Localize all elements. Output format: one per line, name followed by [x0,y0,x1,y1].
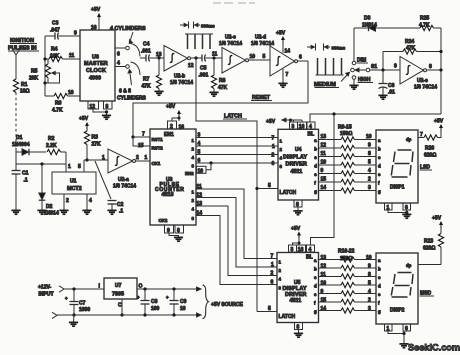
faint top scan artifacts [213,2,255,4]
svg-text:R9-15: R9-15 [338,125,352,131]
timing annotation 300ms [180,22,215,29]
svg-text:5: 5 [368,281,371,287]
svg-text:+5V: +5V [291,226,301,232]
resistor R21 row f [319,298,381,306]
wire U2-a out to CK1 [136,155,151,161]
svg-text:6: 6 [405,326,408,332]
wire U3 pin 12 to U5 pin 1 [192,193,278,269]
svg-text:5: 5 [78,164,81,170]
wire [191,57,202,59]
svg-text:2: 2 [66,198,69,204]
capacitor C3 [45,21,80,40]
svg-text:DRIVER: DRIVER [286,161,308,167]
svg-text:4.7K: 4.7K [52,108,63,114]
svg-text:R2: R2 [48,136,55,142]
svg-text:12: 12 [188,63,194,69]
svg-text:dp: dp [406,263,412,268]
resistor R15 row g [319,185,382,194]
svg-text:CK2: CK2 [159,218,168,223]
svg-text:C4: C4 [143,42,150,48]
svg-text:4: 4 [368,289,371,295]
svg-text:d: d [314,283,317,288]
svg-text:10: 10 [68,90,74,96]
label 6 &amp; 8 CYLINDERS with arrow [117,70,147,102]
resistor R16 row a [319,255,382,263]
svg-text:1/6 74C14: 1/6 74C14 [219,41,242,47]
svg-text:14: 14 [321,185,327,191]
svg-text:D2: D2 [46,204,53,210]
capacitor C7 [65,289,90,315]
svg-text:4: 4 [89,198,92,204]
svg-text:9: 9 [321,168,324,174]
svg-text:2: 2 [136,155,139,161]
resistor R23 [418,228,444,265]
ground [37,210,46,214]
wire U3 pin 11 to U5 pin 7 [192,184,278,260]
node junction [43,81,46,84]
svg-text:R5: R5 [31,69,38,75]
inverter U2-c [219,35,249,74]
svg-text:1/6 74C14: 1/6 74C14 [251,41,274,47]
resistor R14 row f [319,177,381,186]
timing annotation 300ms [307,44,346,51]
label LSD [420,165,433,171]
node junction [43,57,46,60]
wire RST1 [131,132,150,139]
svg-text:47K: 47K [142,84,152,90]
wire [15,148,17,164]
svg-text:BL: BL [306,255,313,261]
svg-text:3: 3 [198,133,201,139]
IC U4 DISPLAY DRIVER 4511 [278,129,319,200]
svg-text:g: g [314,189,317,194]
svg-text:S1: S1 [371,64,377,70]
svg-text:11: 11 [69,53,75,59]
ground [399,344,408,348]
capacitor C1 [12,164,29,210]
svg-text:3: 3 [368,185,371,191]
U2-d pin 7 to ground [283,69,289,83]
capacitor C4 [140,42,164,62]
+5V to U5 pins 3/16 [291,226,301,245]
IC U5 DISPLAY DRIVER 4511 [277,253,319,323]
capacitor C9 [166,287,187,316]
svg-text:+5V: +5V [166,104,176,110]
capacitor C5 [199,52,223,79]
resistor R12 row d [319,160,382,169]
svg-text:RST1: RST1 [152,137,164,142]
svg-text:+: + [65,296,68,301]
U6 pin 6 output [115,46,129,57]
svg-text:7805: 7805 [112,292,124,298]
wire U3 pin 6 to U4 pin 6 [192,158,279,168]
svg-text:4060: 4060 [89,76,101,82]
selector arc upper [131,44,141,57]
svg-text:10: 10 [366,134,372,140]
svg-text:.1: .1 [119,209,123,215]
U4 bottom pin 8 [294,200,302,211]
svg-text:9: 9 [394,64,397,70]
svg-text:15: 15 [321,177,327,183]
svg-text:12: 12 [90,104,96,110]
ground [378,95,387,99]
U1 pin 2 [64,194,69,210]
watermark seekic [408,343,460,353]
svg-text:15: 15 [138,143,144,149]
node junction [381,68,384,71]
svg-text:2: 2 [271,271,274,277]
wire output node vertical [440,28,442,114]
svg-text:CLOCK: CLOCK [86,68,106,74]
svg-text:12: 12 [321,264,327,270]
+5V for R26 [434,119,444,132]
svg-text:9: 9 [368,264,371,270]
svg-text:9: 9 [74,31,77,37]
wire +5V out rail [137,288,197,290]
svg-text:13: 13 [197,201,203,207]
svg-text:SeekIC.com: SeekIC.com [408,343,460,353]
svg-text:C1: C1 [22,171,29,177]
label LATCH [223,114,247,120]
switch S1 [351,28,400,79]
DISP1 digit 8 [391,150,413,177]
svg-text:CYLINDERS: CYLINDERS [117,96,147,102]
display DISP2 [376,253,418,324]
svg-text:U2-e: U2-e [417,78,428,84]
regulator U7 7805 [99,278,143,309]
svg-text:DISP2: DISP2 [390,308,405,314]
resistor R19 row d [319,281,382,289]
svg-text:1N914: 1N914 [44,211,59,217]
svg-text:1/6 74C14: 1/6 74C14 [414,85,437,91]
svg-text:6: 6 [117,52,120,58]
svg-text:7: 7 [286,72,289,78]
op-to-coupler U1 MCT2 [52,172,96,194]
svg-text:7: 7 [271,254,274,260]
svg-text:8: 8 [177,228,180,234]
ground [293,211,302,215]
label IGNITION PULSES IN [8,38,39,52]
diode D2 [39,164,59,217]
svg-text:d: d [314,163,317,168]
svg-text:C9: C9 [180,299,187,305]
svg-text:+12V-: +12V- [38,285,52,291]
svg-text:1: 1 [145,155,148,161]
capacitor C2 [108,201,124,215]
svg-text:U7: U7 [115,283,122,289]
ground [402,214,411,218]
waveform pulse train medium [316,58,344,75]
resistor R6 [45,90,80,114]
svg-text:U6: U6 [92,55,99,61]
svg-text:15: 15 [321,298,327,304]
resistor R17 row b [319,264,382,272]
resistor R22 row g [319,306,382,314]
svg-text:11: 11 [197,184,203,190]
svg-text:1/6 74C14: 1/6 74C14 [113,184,136,190]
svg-text:27K: 27K [92,142,102,148]
svg-text:+: + [137,295,140,300]
svg-text:D1: D1 [16,135,23,141]
svg-text:b: b [378,267,381,272]
wire LATCH net [196,58,257,312]
label R16-22 150ohm [338,249,355,263]
svg-text:d: d [378,284,381,289]
input connector chevrons [52,286,64,319]
svg-text:R6: R6 [55,101,62,107]
wire diagonal to C2 [95,161,111,199]
resistor R3 [84,131,101,160]
svg-text:5: 5 [268,183,271,189]
svg-text:10: 10 [321,281,327,287]
svg-text:300ms: 300ms [332,46,346,51]
wire [15,63,17,79]
svg-text:13: 13 [321,255,327,261]
svg-text:12: 12 [197,193,203,199]
wire (dashed) [15,93,17,149]
svg-text:10: 10 [321,160,327,166]
svg-text:+5V: +5V [434,119,444,125]
node junction [332,112,335,115]
svg-text:620Ω: 620Ω [423,246,435,252]
wire RST2 [133,137,150,149]
svg-text:R24: R24 [405,39,414,45]
display DISP1 [376,130,418,203]
U3 bottom pins 9 and 8 [165,225,184,237]
wire +12V rail [64,288,104,290]
ground [209,92,218,96]
ground [294,333,303,337]
resistor R20 row e [319,289,382,297]
svg-text:.001: .001 [141,49,151,55]
wire U3 pin 14 to U5 pin 6 [192,211,278,286]
svg-text:R4: R4 [51,47,58,53]
svg-text:8: 8 [368,151,371,157]
IC U6 MASTER CLOCK 4060 [80,30,115,101]
wire U2-e output [427,64,443,72]
node R3/U1-5/U2a input [85,158,88,161]
node junction [72,313,75,316]
resistor R11 row c [319,151,382,160]
svg-text:U5: U5 [294,280,301,286]
inverter U2-e [400,57,437,91]
DISP2 digit 8 [391,273,413,298]
svg-text:7: 7 [142,132,145,138]
svg-text:MCT2: MCT2 [67,186,82,192]
svg-text:1000: 1000 [79,307,90,313]
ground [82,210,91,214]
label +12V INPUT [38,285,54,298]
output arrows [197,287,202,317]
svg-text:4511: 4511 [291,169,303,175]
node junction [212,56,215,59]
wire U2-d output [298,55,309,62]
svg-text:5: 5 [263,54,266,60]
ground for HIGH contact [349,80,358,90]
+5V to U6 pin 16 [91,7,101,31]
ground [69,315,78,326]
svg-text:C2: C2 [117,202,124,208]
resistor R24 feedback [383,39,443,70]
svg-text:CK1: CK1 [152,161,161,166]
DISP2 bottom pins 1 and 6 [385,324,411,344]
svg-text:C5: C5 [200,66,207,72]
wire U3 pin 4 to U4 pin 1 [192,141,279,151]
svg-text:4518: 4518 [162,192,174,198]
wire [84,159,108,161]
svg-text:2: 2 [368,298,371,304]
svg-text:.01: .01 [388,90,395,96]
resistor R18 row c [319,272,382,280]
svg-text:U4: U4 [295,147,302,153]
ground [107,210,116,214]
IC U3 PULSE COUNTER 4518 [150,129,196,225]
label R9-15 150ohm [338,125,352,138]
ground [154,91,163,95]
svg-text:b: b [378,147,381,152]
svg-text:4: 4 [198,141,201,147]
svg-text:14: 14 [321,306,327,312]
ground [59,210,68,214]
wire latch to U5 pin 5 [257,306,277,312]
svg-text:C: C [118,303,122,309]
wire latch to U4 pin 5 [255,183,278,190]
+5V to U2-d pin 14 [276,31,290,55]
inverter U2-d [251,35,298,77]
svg-text:9: 9 [368,143,371,149]
svg-text:5: 5 [368,160,371,166]
svg-text:7: 7 [420,132,423,138]
wire U3 pin 3 to U4 pin 7 [192,133,279,143]
node junction (latch tap) [194,56,197,59]
svg-text:4: 4 [117,61,120,67]
svg-text:10: 10 [366,255,372,261]
svg-text:+: + [166,295,169,300]
label MEDIUM with arrow [314,72,350,88]
resistor R4 [45,47,80,62]
svg-text:14: 14 [285,49,291,55]
label 4 CYLINDERS with arrow [110,26,146,44]
svg-text:EN1: EN1 [164,132,174,138]
resistor R2 [46,136,66,155]
U5 bottom pin 8 [295,323,303,334]
svg-text:13: 13 [321,134,327,140]
svg-text:D3: D3 [364,16,371,22]
U5 top pin boxes 3 16 4 [289,245,315,253]
svg-text:7: 7 [272,136,275,142]
svg-text:R7: R7 [143,77,150,83]
ground [102,115,111,119]
svg-text:U2-d: U2-d [255,35,266,41]
wire RESET net [133,61,308,137]
svg-text:4511: 4511 [290,298,302,304]
svg-text:6: 6 [271,280,274,286]
svg-text:+5V: +5V [79,116,89,122]
svg-text:6 & 8: 6 & 8 [119,89,131,95]
svg-text:1N4004: 1N4004 [12,142,30,148]
resistor R8 [211,58,227,92]
svg-text:1/6 74C14: 1/6 74C14 [170,80,193,86]
U1 pin 4 [87,194,92,210]
node junction [157,56,160,59]
svg-text:+5V: +5V [266,119,276,125]
svg-text:5: 5 [198,150,201,156]
svg-text:47K: 47K [218,85,228,91]
svg-text:8: 8 [106,104,109,110]
svg-text:U2-c: U2-c [225,35,236,41]
svg-text:9: 9 [321,289,324,295]
resistor R1 [13,79,29,95]
U6 bottom pins 12 and 8 [88,101,112,115]
svg-text:6: 6 [299,55,302,61]
diode D3 [354,16,420,32]
svg-text:4 CYLINDERS: 4 CYLINDERS [110,26,146,32]
svg-text:8: 8 [368,272,371,278]
waveform pulse train 300ms [185,34,213,49]
inverter U2-b [156,46,194,87]
svg-text:1: 1 [271,262,274,268]
svg-text:2: 2 [272,153,275,159]
label HIGH [358,77,374,83]
svg-text:20K: 20K [29,76,39,82]
+5V to U4 pins 3/16 [266,118,302,125]
svg-text:6: 6 [198,158,201,164]
svg-text:R26: R26 [425,146,434,152]
svg-text:1: 1 [68,164,71,170]
resistor R10 row b [319,143,382,152]
resistor R26 on dp line [418,131,441,159]
svg-text:10: 10 [180,306,186,312]
svg-text:BL: BL [308,132,315,138]
svg-text:dp: dp [406,137,412,142]
svg-text:.001: .001 [199,73,209,79]
output brace [203,285,209,319]
ground [11,210,20,214]
svg-text:b: b [314,266,317,271]
svg-text:R8: R8 [219,78,226,84]
svg-text:EN2: EN2 [185,171,194,176]
wire lower clamp rail [16,163,66,165]
svg-text:11: 11 [321,272,327,278]
svg-text:U2-b: U2-b [174,74,185,80]
svg-text:MASTER: MASTER [84,61,108,67]
svg-text:10Ω: 10Ω [20,89,30,95]
svg-text:RST2: RST2 [152,146,164,151]
wire to U1 pin 1 [66,152,71,172]
potentiometer R5 [29,59,60,83]
svg-text:2.2K: 2.2K [46,143,57,149]
svg-text:LATCH: LATCH [279,314,296,320]
svg-text:g: g [378,189,381,194]
svg-text:INPUT: INPUT [39,292,54,298]
svg-text:C3: C3 [52,21,59,27]
label RESET [251,95,272,101]
svg-text:g: g [378,309,381,314]
svg-text:3: 3 [368,306,371,312]
resistor R7 [142,58,162,91]
resistor R25 [419,16,441,31]
node junction [72,287,75,290]
U6 pin 4 output [115,61,129,69]
svg-text:5: 5 [268,306,271,312]
ground [278,83,287,87]
svg-text:100: 100 [151,306,160,312]
resistor R9 row a [319,134,382,143]
wire BL to U5 [311,114,335,245]
wire ground rail [57,314,197,316]
svg-text:8: 8 [429,64,432,70]
inverter U2-a [102,149,139,190]
